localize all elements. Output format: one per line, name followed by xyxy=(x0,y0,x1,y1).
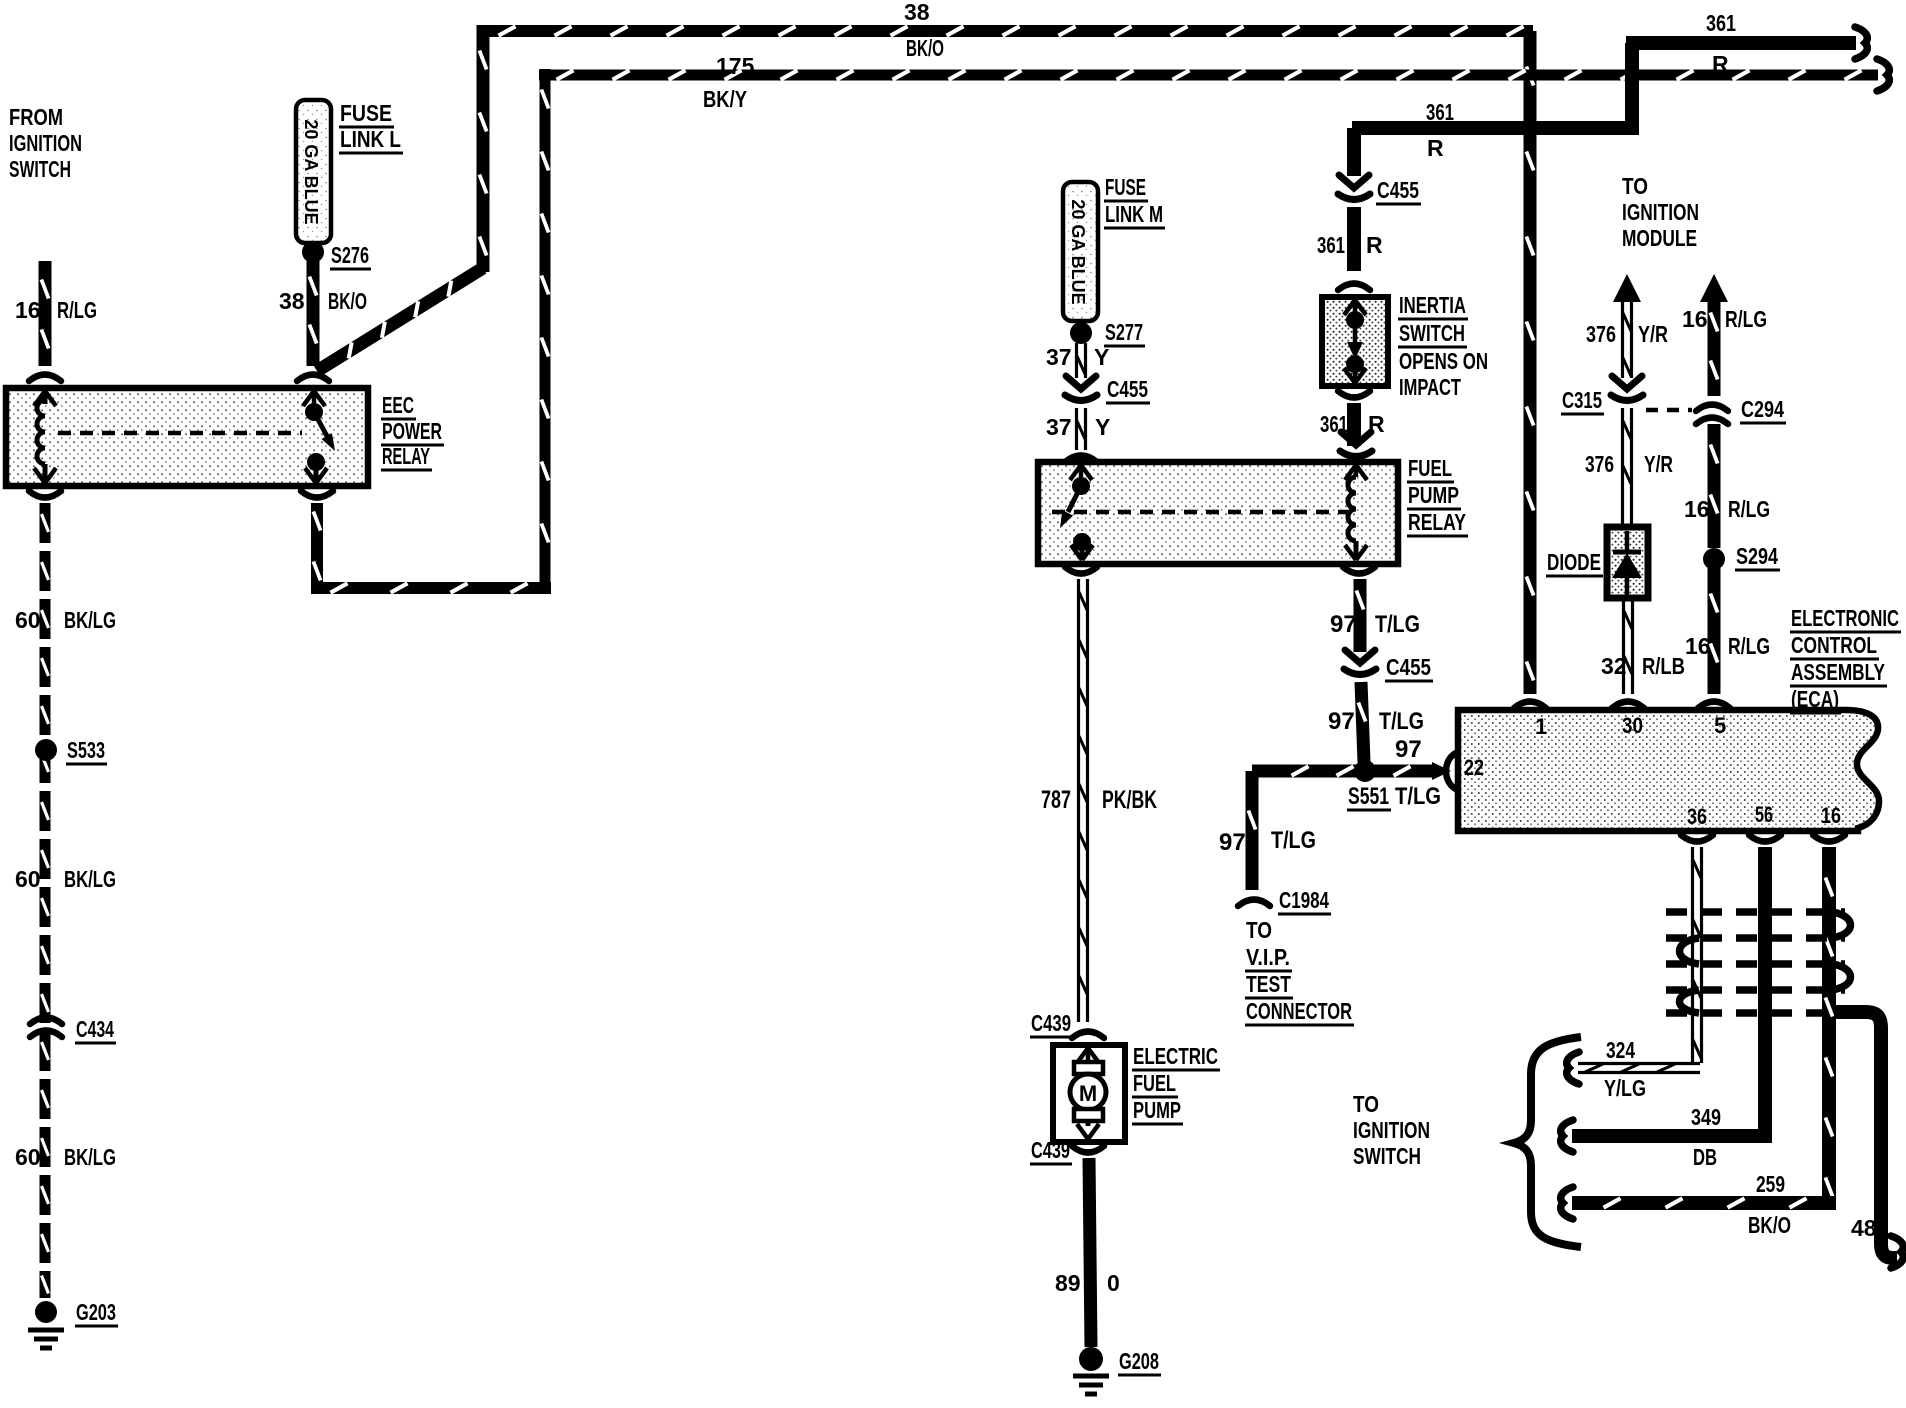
label ELECTRIC FUEL PUMP xyxy=(1132,1043,1220,1124)
label 361 R (middle run) xyxy=(1426,99,1454,161)
arrow end of wire 259 xyxy=(1561,1187,1573,1219)
svg-text:TO: TO xyxy=(1246,917,1272,943)
svg-text:48: 48 xyxy=(1851,1215,1877,1241)
bulkhead grommet dashed loom xyxy=(1666,912,1851,1013)
wire 97 T/LG (C455 to splice S551) xyxy=(1358,682,1365,762)
svg-text:60: 60 xyxy=(15,866,41,892)
svg-text:T/LG: T/LG xyxy=(1375,611,1420,638)
label S277 xyxy=(1104,319,1145,346)
connector C315 xyxy=(1611,376,1643,401)
wire 38 BK/O (S276 to EEC relay switch pin) xyxy=(309,261,316,366)
label 175 BK/Y xyxy=(703,53,755,112)
label 361 R (below inertia switch) xyxy=(1320,411,1385,437)
label 787 PK/BK xyxy=(1041,786,1157,814)
connector C439 (bottom of fuel pump) xyxy=(1072,1146,1104,1153)
splice S551 xyxy=(1354,760,1376,782)
label 60 BK/LG (lower) xyxy=(15,1144,116,1170)
svg-text:89: 89 xyxy=(1055,1270,1081,1296)
wire 361 R (inertia switch to fuel pump relay) xyxy=(1347,403,1361,446)
svg-text:30: 30 xyxy=(1622,713,1643,738)
ECA pin 22 socket notch xyxy=(1446,752,1458,790)
svg-text:16: 16 xyxy=(1684,496,1710,522)
ground G203 xyxy=(28,1301,64,1348)
label 97 (at pin 22 branch) xyxy=(1395,736,1422,763)
wire 60 BK/LG (EEC relay to ground, dashed) xyxy=(42,503,49,1298)
svg-text:BK/O: BK/O xyxy=(906,35,944,61)
fuel pump relay coil xyxy=(1345,465,1367,560)
wire 89 0 (fuel pump to ground) xyxy=(1089,1158,1091,1347)
label 89 0 xyxy=(1055,1270,1120,1296)
label 376 Y/R (upper) xyxy=(1586,321,1668,347)
svg-text:R: R xyxy=(1712,51,1729,77)
svg-text:PUMP: PUMP xyxy=(1408,482,1459,508)
svg-text:97: 97 xyxy=(1330,611,1357,638)
wire 361 R top run xyxy=(1352,43,1856,128)
brace grouping wires to ignition switch xyxy=(1514,1037,1581,1247)
svg-text:16: 16 xyxy=(15,297,41,323)
label 32 R/LB xyxy=(1601,653,1685,679)
connector pin brim at fuel pump relay switch pin xyxy=(1065,456,1097,463)
splice S277 xyxy=(1070,322,1092,344)
EEC power relay box xyxy=(6,388,368,486)
svg-text:SWITCH: SWITCH xyxy=(1399,320,1465,346)
svg-text:324: 324 xyxy=(1606,1037,1635,1063)
svg-text:M: M xyxy=(1079,1081,1097,1106)
svg-text:S276: S276 xyxy=(331,242,369,268)
svg-text:T/LG: T/LG xyxy=(1395,783,1441,810)
splice S533 xyxy=(35,739,57,761)
svg-text:1: 1 xyxy=(1535,714,1547,739)
label 376 Y/R (lower) xyxy=(1585,451,1673,477)
svg-text:MODULE: MODULE xyxy=(1622,225,1697,251)
svg-text:60: 60 xyxy=(15,1144,41,1170)
svg-text:SWITCH: SWITCH xyxy=(1353,1143,1421,1169)
svg-text:C1984: C1984 xyxy=(1279,887,1329,913)
wire 48 (branch to right) xyxy=(1836,1012,1897,1258)
label 97 T/LG (VIP branch) xyxy=(1219,827,1316,856)
wire 175 BK/Y from EEC relay to riser xyxy=(311,503,551,593)
svg-text:C439: C439 xyxy=(1031,1010,1071,1036)
arrow end of wire 349 xyxy=(1561,1120,1573,1152)
label INERTIA SWITCH OPENS ON IMPACT xyxy=(1398,292,1488,400)
label ELECTRONIC CONTROL ASSEMBLY (ECA) xyxy=(1790,605,1901,713)
connector C455 (97 T/LG) xyxy=(1344,650,1376,675)
svg-text:60: 60 xyxy=(15,607,41,633)
svg-text:TO: TO xyxy=(1353,1091,1379,1117)
label 97 T/LG (upper) xyxy=(1330,611,1420,638)
label C315 xyxy=(1561,387,1604,414)
svg-text:R/LG: R/LG xyxy=(57,297,97,323)
wire 97 T/LG (S551 to C1984) xyxy=(1248,766,1358,890)
wire 38 BK/O right riser to ECA pin 1 xyxy=(1526,31,1533,694)
label 48 xyxy=(1851,1215,1877,1241)
connector C455 (361 R) xyxy=(1338,175,1370,200)
svg-text:C439: C439 xyxy=(1031,1137,1070,1163)
svg-text:BK/O: BK/O xyxy=(1748,1212,1791,1238)
svg-text:361: 361 xyxy=(1426,99,1454,125)
connector pin brim below ECA pin 36 xyxy=(1681,835,1713,842)
svg-text:22: 22 xyxy=(1464,755,1484,780)
wire 16 R/LG (C294 to S294) xyxy=(1710,424,1717,548)
svg-text:RELAY: RELAY xyxy=(382,443,430,469)
label 16 R/LG (lower) xyxy=(1685,633,1770,659)
svg-text:S533: S533 xyxy=(67,737,105,763)
svg-text:787: 787 xyxy=(1041,786,1071,814)
svg-text:SWITCH: SWITCH xyxy=(9,156,71,182)
svg-text:R/LG: R/LG xyxy=(1728,633,1770,659)
label DIODE xyxy=(1546,549,1603,576)
svg-text:16: 16 xyxy=(1682,306,1708,332)
wire 37 Y (S277 to C455) xyxy=(1077,343,1086,378)
wire 376 Y/R arrow to ignition module xyxy=(1613,274,1641,378)
svg-text:16: 16 xyxy=(1685,633,1711,659)
svg-text:FUEL: FUEL xyxy=(1133,1070,1176,1096)
label 16 R/LG (middle) xyxy=(1684,496,1770,522)
svg-text:BK/LG: BK/LG xyxy=(64,866,116,892)
EEC relay switch xyxy=(303,391,335,483)
splice S276 xyxy=(302,241,324,263)
svg-text:97: 97 xyxy=(1328,708,1355,735)
EEC relay dashed actuation link xyxy=(58,431,302,436)
svg-text:R/LG: R/LG xyxy=(1728,496,1770,522)
label 16 R/LG (upper) xyxy=(1682,306,1767,332)
svg-text:5: 5 xyxy=(1714,713,1726,738)
svg-text:38: 38 xyxy=(904,0,930,25)
svg-text:CONTROL: CONTROL xyxy=(1791,632,1877,658)
wire 175 BK/Y riser xyxy=(541,69,548,594)
svg-text:FUSE: FUSE xyxy=(340,100,392,126)
svg-text:IGNITION: IGNITION xyxy=(1622,199,1699,225)
label C294 xyxy=(1740,396,1786,423)
wire 97 T/LG (relay to C455) xyxy=(1356,579,1363,652)
svg-text:376: 376 xyxy=(1585,451,1614,477)
ground G208 xyxy=(1073,1347,1109,1394)
wire 38 BK/O left riser xyxy=(479,25,486,272)
label C455 (top) xyxy=(1376,177,1421,204)
svg-text:PUMP: PUMP xyxy=(1133,1097,1181,1123)
svg-text:376: 376 xyxy=(1586,321,1616,347)
label 37 Y (upper) xyxy=(1046,344,1109,370)
arrow end of wire 48 xyxy=(1891,1236,1903,1268)
svg-text:ELECTRIC: ELECTRIC xyxy=(1133,1043,1218,1069)
label 349 DB xyxy=(1691,1104,1721,1170)
wire 38 BK/O diagonal segment xyxy=(317,268,483,371)
svg-text:POWER: POWER xyxy=(382,418,442,444)
svg-text:R: R xyxy=(1366,232,1383,258)
arrow end of wire 324 xyxy=(1567,1052,1579,1084)
connector C1984 xyxy=(1238,900,1270,907)
svg-text:TO: TO xyxy=(1622,173,1648,199)
svg-text:T/LG: T/LG xyxy=(1379,708,1424,735)
svg-text:S277: S277 xyxy=(1105,319,1143,345)
label G208 xyxy=(1118,1348,1161,1375)
svg-text:38: 38 xyxy=(279,288,305,314)
svg-text:(ECA): (ECA) xyxy=(1791,686,1839,712)
connector pin brim below fuel pump relay switch xyxy=(1065,567,1097,574)
svg-text:OPENS ON: OPENS ON xyxy=(1399,348,1488,374)
svg-text:Y/R: Y/R xyxy=(1644,451,1673,477)
svg-text:R/LG: R/LG xyxy=(1725,306,1767,332)
connector C439 (top of fuel pump) xyxy=(1072,1032,1104,1039)
svg-text:DIODE: DIODE xyxy=(1547,549,1601,575)
svg-text:C455: C455 xyxy=(1386,654,1431,680)
connector pin brim below ECA pin 56 xyxy=(1749,835,1781,842)
dashed link C315-C294 xyxy=(1646,408,1692,413)
svg-text:V.I.P.: V.I.P. xyxy=(1246,944,1290,970)
net label TO IGNITION SWITCH xyxy=(1353,1091,1430,1169)
label FUSE LINK M xyxy=(1104,174,1165,228)
svg-text:Y: Y xyxy=(1095,414,1110,440)
svg-text:RELAY: RELAY xyxy=(1408,509,1466,535)
svg-text:FUSE: FUSE xyxy=(1105,174,1146,200)
svg-text:C434: C434 xyxy=(76,1016,114,1042)
svg-text:36: 36 xyxy=(1687,804,1707,829)
arrow end of wire 361 at right edge xyxy=(1855,27,1867,59)
svg-text:BK/LG: BK/LG xyxy=(64,1144,116,1170)
svg-text:175: 175 xyxy=(716,53,755,79)
svg-text:DB: DB xyxy=(1693,1144,1717,1170)
fuse link M body (20 GA BLUE) xyxy=(1063,182,1098,321)
label 38 BK/O xyxy=(279,288,367,314)
svg-text:S551: S551 xyxy=(1348,783,1389,810)
label EEC POWER RELAY xyxy=(381,392,444,470)
wire 38 BK/O top horizontal run xyxy=(477,26,1533,35)
fuse link L body (20 GA BLUE) xyxy=(296,100,331,243)
wire 361 R (C455 to inertia switch) xyxy=(1347,207,1361,271)
wire 16 R/LG (ignition feed to EEC power relay coil) xyxy=(41,261,48,366)
net label FROM IGNITION SWITCH xyxy=(9,104,82,182)
electric fuel pump box xyxy=(1053,1045,1125,1142)
connector C434 xyxy=(30,1018,62,1038)
wire 376 Y/R (C315 to diode) xyxy=(1623,408,1632,527)
svg-text:20 GA BLUE: 20 GA BLUE xyxy=(301,119,321,224)
inertia switch element xyxy=(1344,300,1366,383)
label 97 T/LG (above S551) xyxy=(1328,708,1424,735)
svg-text:FUEL: FUEL xyxy=(1408,455,1452,481)
svg-text:IGNITION: IGNITION xyxy=(1353,1117,1430,1143)
label 259 BK/O xyxy=(1748,1171,1791,1238)
label 361 R (above inertia switch) xyxy=(1317,232,1383,258)
svg-text:C455: C455 xyxy=(1377,177,1419,203)
label S533 xyxy=(66,737,107,764)
svg-text:32: 32 xyxy=(1601,653,1627,679)
svg-text:BK/Y: BK/Y xyxy=(703,86,747,112)
electronic control assembly (ECA) box xyxy=(1458,710,1879,831)
connector pin brim below fuel pump relay coil xyxy=(1343,567,1375,574)
connector pin brim at ECA pin 30 xyxy=(1612,702,1644,709)
svg-text:37: 37 xyxy=(1046,344,1072,370)
svg-text:EEC: EEC xyxy=(382,392,414,418)
diode D1 box xyxy=(1607,527,1648,598)
svg-text:259: 259 xyxy=(1756,1171,1785,1197)
wire 32 R/LB (diode to ECA pin 30) xyxy=(1624,598,1633,694)
connector pin brim below EEC relay switch xyxy=(301,491,333,498)
svg-text:R/LB: R/LB xyxy=(1642,653,1685,679)
label C455 (fuse link M branch) xyxy=(1106,376,1150,403)
svg-text:20 GA BLUE: 20 GA BLUE xyxy=(1068,199,1088,304)
label TO V.I.P. TEST CONNECTOR xyxy=(1245,917,1354,1025)
svg-text:PK/BK: PK/BK xyxy=(1102,786,1157,814)
svg-text:0: 0 xyxy=(1107,1270,1120,1296)
svg-text:56: 56 xyxy=(1755,802,1773,827)
svg-text:IGNITION: IGNITION xyxy=(9,130,82,156)
svg-text:16: 16 xyxy=(1821,803,1841,828)
svg-text:C455: C455 xyxy=(1107,376,1148,402)
svg-text:G203: G203 xyxy=(76,1299,116,1325)
net label TO IGNITION MODULE xyxy=(1622,173,1699,251)
svg-text:361: 361 xyxy=(1317,232,1345,258)
svg-text:FROM: FROM xyxy=(9,104,63,130)
svg-text:ASSEMBLY: ASSEMBLY xyxy=(1791,659,1885,685)
svg-text:T/LG: T/LG xyxy=(1271,827,1316,854)
wire 361 R to connector C455 xyxy=(1347,128,1361,176)
label 60 BK/LG (middle) xyxy=(15,866,116,892)
svg-text:C294: C294 xyxy=(1741,396,1784,422)
label FUEL PUMP RELAY xyxy=(1407,455,1468,536)
label 37 Y (lower) xyxy=(1046,414,1110,440)
svg-text:CONNECTOR: CONNECTOR xyxy=(1246,998,1352,1024)
connector pin brim at EEC relay coil top xyxy=(29,375,61,382)
label C1984 xyxy=(1278,887,1331,914)
svg-text:97: 97 xyxy=(1395,736,1422,763)
svg-text:INERTIA: INERTIA xyxy=(1399,292,1466,318)
fuel pump relay dashed actuation link xyxy=(1052,510,1348,515)
label S551 T/LG xyxy=(1347,783,1441,810)
ECA pin number labels xyxy=(1464,713,1841,829)
label 16 R/LG xyxy=(15,297,97,323)
EEC relay coil xyxy=(34,391,56,483)
arrow end of wire 175 at right edge xyxy=(1877,59,1889,91)
svg-text:G208: G208 xyxy=(1119,1348,1159,1374)
connector C455 (37 Y) xyxy=(1065,376,1097,401)
wire 259 BK/O (ECA pin 16) xyxy=(1572,847,1836,1208)
connector pin brim at inertia switch top xyxy=(1338,284,1370,291)
wire 97 T/LG (S551 to ECA pin 22) xyxy=(1374,762,1451,780)
inertia switch box xyxy=(1322,297,1388,386)
fuel pump relay box xyxy=(1038,462,1398,564)
svg-text:LINK M: LINK M xyxy=(1105,201,1163,227)
fuel pump relay switch xyxy=(1060,465,1093,560)
svg-text:C315: C315 xyxy=(1562,387,1602,413)
svg-text:R: R xyxy=(1427,135,1444,161)
svg-text:37: 37 xyxy=(1046,414,1072,440)
label C439 (lower) xyxy=(1030,1137,1072,1164)
svg-text:Y/LG: Y/LG xyxy=(1604,1075,1646,1101)
svg-text:349: 349 xyxy=(1691,1104,1721,1130)
label S294 xyxy=(1735,543,1780,570)
connector pin brim below inertia switch xyxy=(1338,391,1370,398)
label 60 BK/LG (upper) xyxy=(15,607,116,633)
label FUSE LINK L xyxy=(339,100,403,153)
fuel pump motor M xyxy=(1070,1048,1106,1139)
wire 787 PK/BK (relay to fuel pump) xyxy=(1079,579,1088,1022)
label 38 BK/O (top run) xyxy=(904,0,944,61)
label 324 Y/LG xyxy=(1604,1037,1646,1101)
connector pin brim at ECA pin 5 xyxy=(1698,702,1730,709)
label C439 (upper) xyxy=(1030,1010,1073,1037)
connector pin brim at EEC relay switch top xyxy=(297,375,329,382)
connector brim at fuel pump relay coil pin xyxy=(1340,432,1372,457)
wire 324 Y/LG (ECA pin 36) xyxy=(1578,847,1702,1073)
label G203 xyxy=(75,1299,118,1326)
label 361 R (top) xyxy=(1706,10,1736,77)
wire 16 R/LG arrow to ignition module xyxy=(1700,274,1728,396)
svg-text:BK/O: BK/O xyxy=(328,288,367,314)
svg-text:ELECTRONIC: ELECTRONIC xyxy=(1791,605,1899,631)
label C455 (fuel pump feed) xyxy=(1385,654,1433,681)
svg-text:97: 97 xyxy=(1219,829,1246,856)
connector C294 xyxy=(1696,405,1728,425)
connector pin brim below ECA pin 16 xyxy=(1813,835,1845,842)
svg-text:Y/R: Y/R xyxy=(1638,321,1668,347)
svg-text:361: 361 xyxy=(1706,10,1736,36)
wire 37 Y (C455 to fuel pump relay) xyxy=(1077,408,1086,450)
svg-text:BK/LG: BK/LG xyxy=(64,607,116,633)
wire 349 DB (ECA pin 56) xyxy=(1572,847,1772,1136)
connector pin brim below EEC relay coil xyxy=(29,491,61,498)
wire 175 BK/Y top horizontal run xyxy=(539,70,1878,79)
label S276 xyxy=(330,242,371,269)
svg-text:S294: S294 xyxy=(1736,543,1778,569)
svg-text:LINK L: LINK L xyxy=(340,126,401,152)
connector pin brim at ECA pin 1 xyxy=(1514,702,1546,709)
svg-text:Y: Y xyxy=(1094,344,1109,370)
svg-text:TEST: TEST xyxy=(1246,971,1291,997)
svg-text:IMPACT: IMPACT xyxy=(1399,374,1461,400)
label C434 xyxy=(75,1016,116,1043)
splice S294 xyxy=(1703,548,1725,570)
wire 16 R/LG (S294 to ECA pin 5) xyxy=(1710,568,1717,694)
